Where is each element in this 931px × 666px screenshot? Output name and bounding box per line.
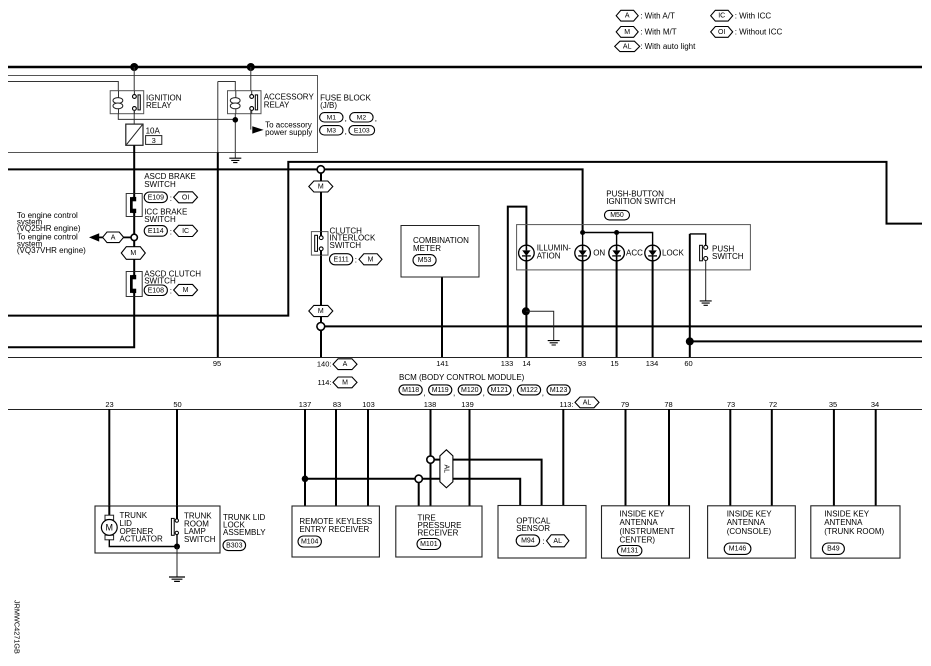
svg-text:B49: B49 [827,546,840,553]
svg-text:79: 79 [621,400,629,409]
svg-text:SWITCH: SWITCH [712,252,744,261]
svg-text:M: M [183,287,189,294]
svg-text:(J/B): (J/B) [320,101,337,110]
svg-text:OI: OI [718,29,725,36]
svg-text:139: 139 [461,400,474,409]
svg-text:: With A/T: : With A/T [640,11,675,20]
svg-text:E109: E109 [148,194,164,201]
svg-text:34: 34 [871,400,879,409]
svg-text:M: M [106,523,114,533]
svg-text:BCM (BODY CONTROL MODULE): BCM (BODY CONTROL MODULE) [399,373,525,382]
svg-text:SWITCH: SWITCH [144,180,176,189]
svg-text::: : [542,537,544,546]
svg-text:SWITCH: SWITCH [330,241,362,250]
svg-text:M: M [342,379,348,386]
svg-text:35: 35 [829,400,837,409]
svg-text:M: M [318,184,324,191]
svg-text:: With M/T: : With M/T [640,28,677,37]
svg-text:AL: AL [623,43,632,50]
svg-text:M120: M120 [461,387,479,394]
svg-text:AL: AL [553,538,562,545]
svg-text:140:: 140: [317,360,332,369]
svg-text::: : [170,227,172,236]
svg-text:83: 83 [333,400,341,409]
svg-text:SENSOR: SENSOR [516,524,550,533]
svg-text::: : [170,194,172,203]
svg-text:power supply: power supply [265,128,312,137]
svg-text:ENTRY RECEIVER: ENTRY RECEIVER [299,525,369,534]
svg-text:M: M [318,308,324,315]
svg-text:14: 14 [522,359,530,368]
svg-text:(VQ37VHR engine): (VQ37VHR engine) [17,246,86,255]
svg-text:A: A [111,234,116,241]
svg-text:,: , [512,388,514,397]
svg-text:LOCK: LOCK [662,249,684,258]
svg-text:114:: 114: [317,378,331,387]
svg-text:E114: E114 [148,228,164,235]
svg-text:JRMWC4271GB: JRMWC4271GB [13,600,22,654]
svg-text:60: 60 [684,359,692,368]
svg-text:INSIDE KEY: INSIDE KEY [620,509,666,518]
svg-text:M123: M123 [550,387,568,394]
svg-text:M94: M94 [521,538,535,545]
svg-text:A: A [343,361,348,368]
svg-text:IC: IC [718,13,725,20]
svg-text:,: , [453,388,455,397]
svg-text:,: , [375,114,377,123]
svg-text:E103: E103 [354,127,370,134]
svg-text:ANTENNA: ANTENNA [727,518,766,527]
svg-text:ON: ON [593,249,605,258]
svg-text:,: , [483,388,485,397]
svg-text::: : [170,287,172,296]
svg-text:SWITCH: SWITCH [184,535,216,544]
svg-text:ATION: ATION [537,251,561,260]
svg-text:10A: 10A [146,126,161,135]
svg-text:138: 138 [424,400,437,409]
svg-text:137: 137 [299,400,312,409]
svg-text:M104: M104 [301,539,319,546]
svg-text:113:: 113: [559,400,573,409]
svg-text:93: 93 [578,359,586,368]
svg-text:OI: OI [182,194,189,201]
svg-text:ACC: ACC [626,249,643,258]
svg-text:ANTENNA: ANTENNA [620,518,659,527]
svg-text:ACTUATOR: ACTUATOR [120,535,163,544]
svg-text:E108: E108 [148,287,164,294]
svg-text:: With ICC: : With ICC [735,11,772,20]
svg-text:SWITCH: SWITCH [144,277,176,286]
svg-text:M50: M50 [610,212,624,219]
svg-text:M: M [624,29,630,36]
svg-text:,: , [423,388,425,397]
svg-text:M118: M118 [402,387,419,394]
svg-text:B303: B303 [226,542,242,549]
svg-text:CENTER): CENTER) [620,536,656,545]
svg-text:M131: M131 [621,548,639,555]
svg-text:IC: IC [182,228,189,235]
svg-text:(INSTRUMENT: (INSTRUMENT [620,527,675,536]
svg-text:IGNITION SWITCH: IGNITION SWITCH [606,197,676,206]
svg-text::: : [355,256,357,265]
svg-text:RECEIVER: RECEIVER [418,529,459,538]
svg-text:M121: M121 [491,387,509,394]
svg-text:RELAY: RELAY [264,101,290,110]
svg-text:133: 133 [501,359,514,368]
svg-text:: Without ICC: : Without ICC [735,28,783,37]
svg-text:A: A [625,13,630,20]
svg-text:INSIDE KEY: INSIDE KEY [727,509,773,518]
svg-text:INSIDE KEY: INSIDE KEY [824,509,870,518]
svg-text:15: 15 [610,359,618,368]
svg-text:(TRUNK ROOM): (TRUNK ROOM) [824,527,884,536]
svg-text:ASSEMBLY: ASSEMBLY [223,528,266,537]
svg-text:RELAY: RELAY [146,101,172,110]
svg-text:23: 23 [105,400,113,409]
svg-text:M53: M53 [418,257,432,264]
svg-text:AL: AL [442,465,449,474]
svg-text:SWITCH: SWITCH [144,215,176,224]
svg-text:M122: M122 [520,387,538,394]
svg-text:72: 72 [769,400,777,409]
svg-text:M119: M119 [432,387,449,394]
svg-text:,: , [345,127,347,136]
svg-text:3: 3 [152,136,156,145]
svg-text:,: , [542,388,544,397]
svg-text:73: 73 [727,400,735,409]
svg-text:,: , [345,114,347,123]
svg-text:95: 95 [213,359,221,368]
svg-text:M3: M3 [327,127,337,134]
svg-text:M: M [368,256,374,263]
svg-text:M101: M101 [420,541,438,548]
svg-text:141: 141 [436,359,449,368]
svg-text:METER: METER [413,244,441,253]
svg-text:E111: E111 [333,256,348,263]
svg-text:ANTENNA: ANTENNA [824,518,863,527]
svg-text:: With auto light: : With auto light [640,42,696,51]
svg-text:103: 103 [362,400,375,409]
svg-text:134: 134 [646,359,659,368]
svg-text:78: 78 [664,400,672,409]
svg-text:50: 50 [173,400,181,409]
svg-text:M: M [130,250,136,257]
svg-text:(CONSOLE): (CONSOLE) [727,527,772,536]
svg-text:AL: AL [583,399,592,406]
svg-text:M1: M1 [327,114,337,121]
svg-text:M2: M2 [357,114,367,121]
svg-text:M146: M146 [729,546,747,553]
